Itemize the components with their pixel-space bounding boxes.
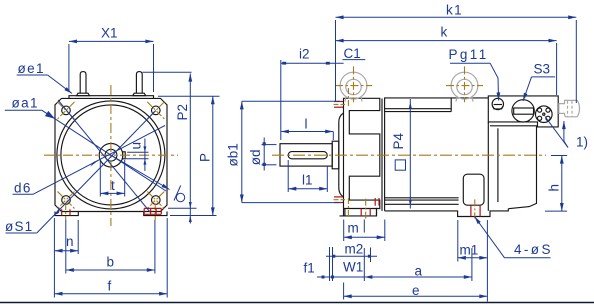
shaft keyway slot — [288, 152, 327, 159]
right foot — [144, 212, 167, 216]
keyway on shaft — [123, 152, 126, 159]
arrowhead oa1 — [45, 111, 55, 119]
terminal strip on flange top — [69, 96, 154, 99]
arrowhead d6 — [90, 159, 99, 166]
dimension X1 — [69, 41, 154, 92]
left foot hole centerline — [65, 204, 67, 220]
flange foot step — [344, 209, 377, 216]
svg-text:f1: f1 — [304, 261, 315, 276]
label C1 — [342, 46, 365, 61]
svg-text:Pg11: Pg11 — [449, 47, 489, 62]
svg-text:k: k — [441, 25, 448, 40]
svg-text:ød: ød — [248, 149, 263, 165]
blue geometry: leaders and dimensions of front view — [5, 26, 220, 298]
svg-text:n: n — [66, 234, 74, 249]
terminal pin base left — [77, 93, 90, 96]
dimension od — [262, 138, 277, 171]
label d6 — [13, 181, 34, 196]
leader oe1 — [48, 75, 72, 94]
svg-text:m1: m1 — [460, 243, 479, 258]
dimension l1 — [288, 160, 327, 192]
leader C from center — [111, 155, 170, 189]
mounting hole bottom-right — [152, 196, 161, 205]
gearbox flange face profile — [339, 113, 344, 197]
svg-text:a: a — [415, 264, 423, 279]
dimension P — [158, 96, 220, 215]
body seam double line top — [385, 98, 452, 112]
bottom border rule — [0, 302, 594, 304]
label S3 — [532, 62, 556, 77]
svg-text:S3: S3 — [534, 62, 551, 77]
hole cross bottom-right — [147, 192, 164, 209]
dimension e — [344, 283, 488, 300]
hole cross top-right — [147, 102, 164, 119]
output shaft — [280, 144, 332, 166]
flange square with chamfered corners — [55, 98, 167, 211]
horizontal centerline — [44, 154, 178, 156]
svg-text:b: b — [107, 255, 115, 270]
label oe1 — [17, 61, 48, 76]
body seam double line bottom — [385, 198, 459, 205]
svg-text:P2: P2 — [175, 104, 190, 121]
svg-text:øe1: øe1 — [18, 61, 45, 76]
label Pg11 — [449, 47, 491, 63]
dimension ob1 — [242, 101, 340, 202]
svg-text:m: m — [348, 221, 359, 236]
svg-text:u: u — [129, 142, 144, 150]
dimension f — [54, 218, 167, 298]
label oS1 — [5, 219, 37, 234]
rear mounting boss — [463, 174, 484, 205]
red thread marks right foot — [144, 208, 161, 214]
Pg11 cable gland — [492, 98, 503, 109]
svg-text:øb1: øb1 — [226, 143, 241, 166]
dimension P4 — [409, 99, 412, 209]
leader oS1 long diagonal — [37, 111, 156, 234]
red thread marks side view — [334, 102, 480, 217]
dimension m2 — [326, 247, 377, 281]
svg-text:4-øS: 4-øS — [514, 242, 553, 257]
leader footnote 1 — [545, 117, 568, 148]
svg-text:1): 1) — [576, 135, 588, 150]
label 4-oS — [505, 242, 553, 258]
dimension m — [344, 220, 385, 242]
dimension C — [168, 202, 217, 224]
svg-text:d6: d6 — [14, 181, 32, 196]
rear boss tapped hole — [470, 205, 472, 216]
eyebolt C1 left (phantom) — [340, 72, 367, 101]
dimension t — [100, 160, 124, 197]
leader d6 chord — [33, 126, 165, 195]
svg-text:W1: W1 — [343, 260, 363, 275]
mounting hole top-right — [152, 106, 161, 115]
orange centerlines front view — [44, 85, 178, 226]
joint line flange/motor — [381, 99, 383, 211]
dimension W1 + f1 + a shared line — [317, 248, 472, 281]
leader Pg11 — [490, 63, 499, 100]
endbell seam — [497, 128, 499, 202]
dimension l — [281, 132, 334, 141]
dimension i2 — [281, 60, 344, 140]
dimension k1 — [336, 17, 577, 103]
svg-text:t: t — [111, 178, 115, 193]
svg-text:i2: i2 — [299, 47, 310, 62]
blue dimensions side view — [226, 3, 589, 302]
leader oa1 with chord — [42, 110, 166, 191]
vertical centerline — [110, 85, 112, 226]
eyebolt C1 right (phantom) — [451, 72, 478, 101]
terminal pin right — [136, 72, 142, 94]
rear boss hole centerline — [474, 199, 476, 218]
flange front tapped holes bottom — [334, 196, 343, 198]
mounting hole top-left — [62, 106, 71, 115]
svg-text:X1: X1 — [101, 26, 118, 41]
leader 4-oS — [475, 217, 505, 258]
dimension k — [336, 41, 557, 95]
main horizontal centerline — [272, 154, 546, 156]
dimension n — [54, 218, 78, 298]
shaft bore circle d6 — [105, 149, 117, 161]
mating connector (phantom gray) — [559, 100, 580, 116]
terminal pin left — [80, 72, 86, 94]
dimension m1 — [458, 220, 488, 302]
rear endbell — [488, 122, 536, 211]
front flange top hole centerlines — [334, 103, 346, 105]
svg-text:e: e — [412, 283, 420, 298]
DIN connector 4-pin — [536, 106, 553, 123]
motor body outline — [385, 98, 489, 211]
arrowhead oS1 — [54, 207, 60, 216]
svg-text:m2: m2 — [345, 242, 364, 257]
flange rear recess thread — [374, 198, 376, 206]
svg-text:P4: P4 — [391, 132, 406, 149]
svg-text:h: h — [547, 184, 562, 192]
svg-text:P: P — [198, 153, 213, 162]
svg-text:C1: C1 — [344, 46, 361, 61]
motor body inner circle — [61, 105, 161, 205]
front foot hole centerline — [365, 199, 367, 221]
terminal pin base right — [133, 93, 146, 96]
svg-text:øS1: øS1 — [5, 219, 33, 234]
svg-text:k1: k1 — [446, 3, 463, 18]
right foot hole centerline — [154, 204, 156, 220]
svg-text:l: l — [305, 117, 308, 132]
svg-text:f: f — [108, 279, 112, 294]
dimension b — [66, 220, 155, 274]
screw S3 — [512, 100, 534, 122]
dimension h — [545, 156, 567, 212]
body bottom edge with rear foot — [385, 209, 509, 217]
diameter symbol near C — [174, 186, 185, 202]
dimension u — [126, 139, 149, 172]
connector box — [488, 96, 558, 127]
orange centerlines side view — [272, 66, 546, 220]
front flange bottom hole centerlines — [334, 199, 346, 201]
chord line e1 — [58, 100, 150, 212]
eyebolt right cross — [464, 66, 466, 102]
hole cross top-left — [58, 102, 75, 119]
svg-text:l1: l1 — [302, 173, 313, 188]
gearbox flange block — [340, 98, 380, 216]
dimension P2 — [143, 72, 192, 208]
mounting hole bottom-left — [62, 196, 71, 205]
front foot tapped hole — [360, 209, 362, 216]
shaft circle — [99, 143, 123, 167]
motor body outer circle — [57, 101, 165, 209]
red thread marks left foot — [62, 209, 70, 215]
flange front tapped holes top — [334, 101, 343, 103]
shaft hub collar — [332, 141, 339, 169]
eyebolt left cross — [353, 66, 355, 102]
svg-text:øa1: øa1 — [12, 96, 39, 111]
hole cross bottom-left — [58, 192, 75, 209]
leader S3 — [523, 77, 532, 101]
left foot — [55, 212, 78, 216]
label oa1 — [5, 96, 42, 111]
